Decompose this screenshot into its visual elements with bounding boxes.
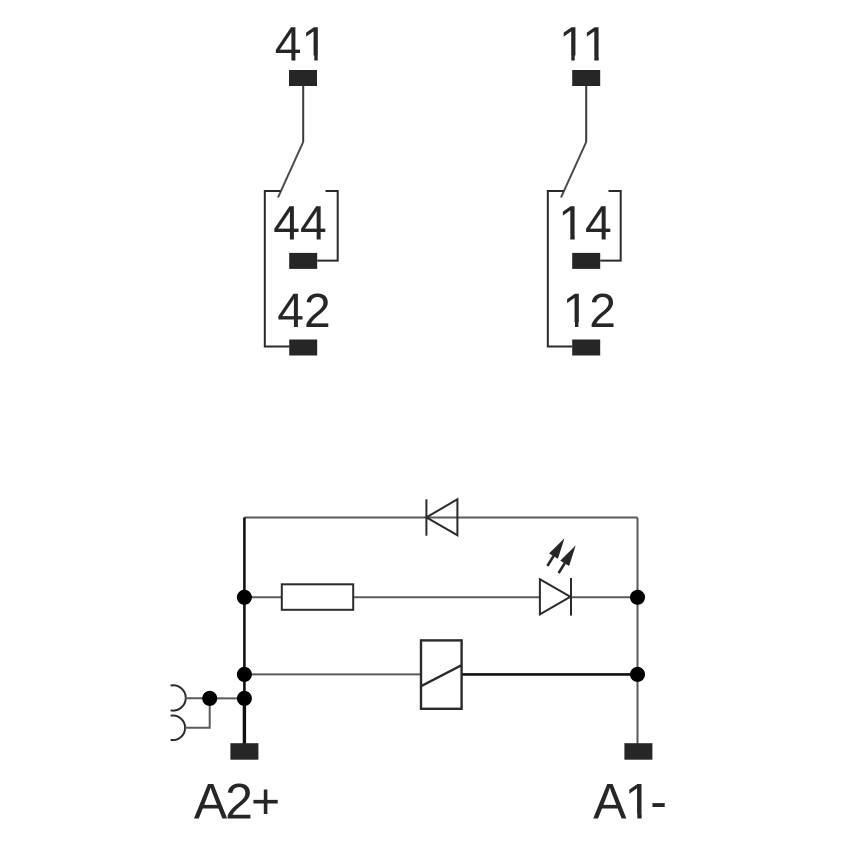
svg-text:12: 12 [563, 285, 616, 338]
svg-text:11: 11 [559, 18, 609, 71]
svg-text:41: 41 [275, 18, 328, 71]
svg-text:44: 44 [273, 197, 326, 250]
svg-text:42: 42 [277, 285, 330, 338]
svg-text:A1-: A1- [593, 774, 665, 830]
svg-text:14: 14 [558, 197, 611, 250]
svg-text:A2+: A2+ [194, 774, 278, 830]
